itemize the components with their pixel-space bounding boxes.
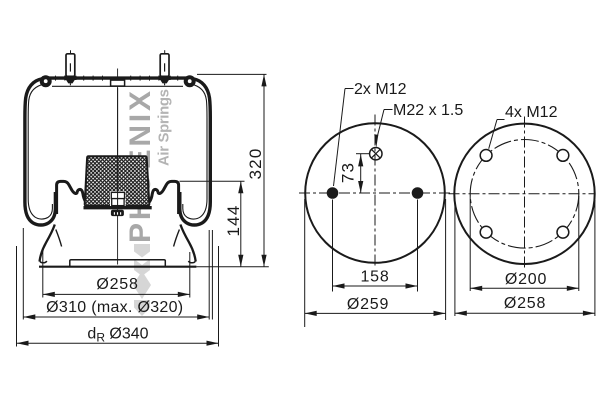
ext d340 bbox=[16, 246, 18, 347]
watermark Air Springs bbox=[156, 89, 173, 166]
svg-text:4x M12: 4x M12 bbox=[505, 104, 558, 121]
piston bell inner edge right bbox=[174, 230, 180, 247]
piston top plate bbox=[84, 206, 152, 209]
dim 258 right view bbox=[455, 200, 595, 316]
hole bottom-left bbox=[480, 226, 492, 238]
label 2x M12 bbox=[334, 89, 354, 187]
ext d310 bbox=[22, 228, 24, 320]
dim 158 bbox=[333, 200, 418, 292]
svg-text:Ø258: Ø258 bbox=[96, 276, 138, 293]
svg-text:Air Springs: Air Springs bbox=[156, 89, 173, 166]
svg-text:Ø200: Ø200 bbox=[505, 271, 547, 288]
dim d258 line bbox=[43, 293, 190, 295]
dim d340 line bbox=[17, 342, 219, 344]
centerline horizontal bbox=[449, 193, 596, 195]
bellows wall right bbox=[180, 79, 211, 225]
bead right bbox=[184, 75, 196, 87]
hole bottom-right bbox=[557, 226, 569, 238]
bellows wall left bbox=[25, 79, 56, 225]
bolt dot left bbox=[327, 187, 339, 199]
svg-text:Ø258: Ø258 bbox=[504, 295, 546, 312]
bolt dot right bbox=[412, 187, 424, 199]
bolt nut under plate bbox=[111, 210, 124, 216]
centerline vertical bbox=[524, 117, 526, 271]
svg-text:M22 x 1.5: M22 x 1.5 bbox=[393, 102, 463, 119]
centerline over bumper bbox=[117, 88, 119, 207]
hole top-left bbox=[480, 150, 492, 162]
piston bell right edge bbox=[180, 225, 195, 262]
label M22 x 1.5 bbox=[377, 110, 392, 138]
base plate bottom bbox=[39, 266, 196, 268]
ext top plate level bbox=[197, 73, 267, 75]
watermark PHOENIX bbox=[124, 91, 157, 243]
piston hook left bbox=[57, 181, 88, 214]
top plate bbox=[42, 76, 192, 79]
svg-text:Ø310 (max. Ø320): Ø310 (max. Ø320) bbox=[46, 299, 183, 316]
circle bbox=[305, 123, 445, 263]
label 4x M12 bbox=[489, 120, 505, 149]
air fitting M22 bbox=[370, 148, 382, 160]
svg-text:144: 144 bbox=[224, 205, 243, 237]
dim 320 line bbox=[263, 74, 265, 266]
svg-text:320: 320 bbox=[246, 148, 265, 180]
air inlet notch bbox=[111, 80, 125, 86]
piston bell inner edge left bbox=[56, 230, 62, 247]
bead left bbox=[40, 75, 52, 87]
ext d258 bbox=[42, 250, 44, 298]
stud 1 bbox=[64, 50, 76, 85]
svg-text:2x M12: 2x M12 bbox=[354, 81, 407, 98]
stud 2 bbox=[159, 50, 171, 85]
bolt circle bbox=[470, 140, 579, 249]
plate crimp ticks bbox=[56, 76, 178, 81]
centerline bbox=[117, 69, 119, 265]
centerline vertical bbox=[374, 115, 376, 269]
dim 73 bbox=[356, 154, 370, 193]
piston bell left edge bbox=[40, 225, 55, 262]
ext base bottom level bbox=[196, 266, 268, 268]
piston hook right bbox=[148, 181, 179, 214]
centerline horizontal bbox=[299, 192, 451, 194]
circle bbox=[454, 124, 594, 264]
hole top-right bbox=[557, 150, 569, 162]
dim d310 line bbox=[23, 316, 209, 318]
svg-text:158: 158 bbox=[360, 269, 389, 286]
svg-text:73: 73 bbox=[339, 162, 358, 183]
bumper bbox=[85, 156, 150, 206]
dim 144 line bbox=[240, 181, 242, 267]
bolt recess + head bbox=[110, 191, 126, 206]
arrowheads left view bbox=[17, 74, 267, 345]
dim 259 bbox=[305, 199, 446, 327]
watermark chevron logo bbox=[133, 244, 151, 316]
base plate top bbox=[40, 260, 196, 267]
svg-text:Ø259: Ø259 bbox=[347, 296, 389, 313]
bellows top membrane bbox=[52, 85, 183, 87]
ext piston top level bbox=[180, 180, 245, 182]
dim 200 bbox=[470, 196, 579, 291]
